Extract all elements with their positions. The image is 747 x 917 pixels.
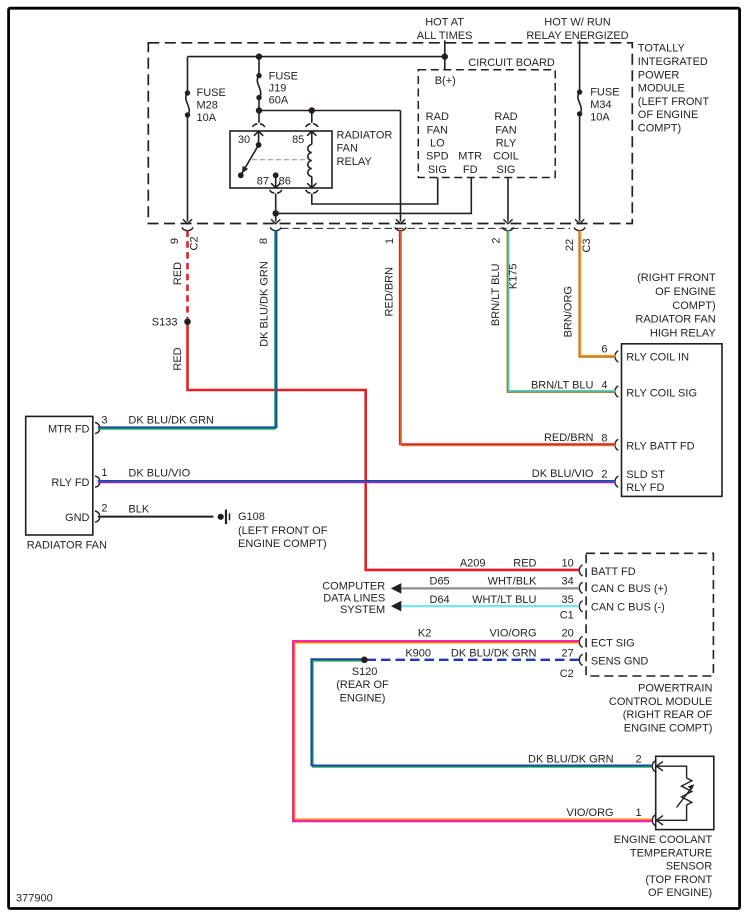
svg-text:RELAY ENERGIZED: RELAY ENERGIZED xyxy=(526,30,628,42)
svg-text:OF ENGINE: OF ENGINE xyxy=(655,286,716,298)
svg-text:DATA LINES: DATA LINES xyxy=(323,592,385,604)
svg-text:9: 9 xyxy=(169,238,181,244)
svg-text:2: 2 xyxy=(491,238,503,244)
svg-text:FD: FD xyxy=(463,164,478,176)
svg-text:ECT SIG: ECT SIG xyxy=(591,637,635,649)
svg-text:M34: M34 xyxy=(590,99,611,111)
svg-text:K900: K900 xyxy=(405,647,431,659)
svg-text:(REAR OF: (REAR OF xyxy=(336,679,389,691)
svg-text:RADIATOR FAN: RADIATOR FAN xyxy=(635,314,715,326)
svg-text:(LEFT FRONT OF: (LEFT FRONT OF xyxy=(238,525,328,537)
svg-text:LO: LO xyxy=(430,137,445,149)
svg-text:C1: C1 xyxy=(560,609,574,621)
svg-text:FUSE: FUSE xyxy=(269,71,298,83)
svg-text:ENGINE COMPT): ENGINE COMPT) xyxy=(624,723,713,735)
svg-text:C2: C2 xyxy=(560,668,574,680)
svg-text:(RIGHT REAR OF: (RIGHT REAR OF xyxy=(623,709,713,721)
svg-text:B(+): B(+) xyxy=(435,75,456,87)
svg-text:G108: G108 xyxy=(238,511,265,523)
svg-text:2: 2 xyxy=(601,468,607,480)
svg-text:D65: D65 xyxy=(430,575,450,587)
svg-text:8: 8 xyxy=(258,238,270,244)
svg-text:1: 1 xyxy=(635,807,641,819)
svg-text:10A: 10A xyxy=(590,112,610,124)
svg-text:86: 86 xyxy=(279,175,291,187)
svg-text:60A: 60A xyxy=(269,95,289,107)
svg-text:DK BLU/VIO: DK BLU/VIO xyxy=(532,468,594,480)
svg-text:RED/BRN: RED/BRN xyxy=(544,432,594,444)
svg-text:DK BLU/VIO: DK BLU/VIO xyxy=(128,468,190,480)
svg-text:CAN C BUS (+): CAN C BUS (+) xyxy=(591,583,668,595)
svg-text:RADIATOR: RADIATOR xyxy=(337,129,393,141)
svg-text:SIG: SIG xyxy=(428,164,447,176)
svg-text:4: 4 xyxy=(601,380,607,392)
svg-text:COMPUTER: COMPUTER xyxy=(322,581,385,593)
svg-text:K2: K2 xyxy=(418,628,431,640)
svg-text:RED: RED xyxy=(172,262,184,285)
svg-text:35: 35 xyxy=(562,594,574,606)
svg-text:POWERTRAIN: POWERTRAIN xyxy=(638,683,712,695)
svg-text:WHT/LT BLU: WHT/LT BLU xyxy=(472,594,536,606)
svg-text:FUSE: FUSE xyxy=(590,87,619,99)
svg-text:(LEFT FRONT: (LEFT FRONT xyxy=(638,96,710,108)
svg-text:ENGINE COMPT): ENGINE COMPT) xyxy=(238,538,327,550)
svg-text:SIG: SIG xyxy=(497,164,516,176)
svg-text:30: 30 xyxy=(238,134,250,146)
svg-text:(TOP FRONT: (TOP FRONT xyxy=(645,874,712,886)
svg-text:S133: S133 xyxy=(152,317,178,329)
svg-text:OF ENGINE): OF ENGINE) xyxy=(648,887,712,899)
svg-text:RAD: RAD xyxy=(426,111,449,123)
svg-text:CONTROL MODULE: CONTROL MODULE xyxy=(609,696,713,708)
svg-text:COIL: COIL xyxy=(493,151,519,163)
svg-text:ENGINE): ENGINE) xyxy=(340,692,386,704)
svg-text:377900: 377900 xyxy=(16,892,53,904)
svg-text:8: 8 xyxy=(601,433,607,445)
svg-text:SPD: SPD xyxy=(426,151,449,163)
svg-text:1: 1 xyxy=(384,238,396,244)
svg-text:RLY COIL IN: RLY COIL IN xyxy=(626,351,689,363)
svg-text:SENSOR: SENSOR xyxy=(666,861,713,873)
svg-text:22: 22 xyxy=(564,239,576,251)
svg-text:VIO/ORG: VIO/ORG xyxy=(567,807,614,819)
svg-text:COMPT): COMPT) xyxy=(672,300,715,312)
svg-text:RLY FD: RLY FD xyxy=(626,482,664,494)
svg-text:FAN: FAN xyxy=(337,143,358,155)
svg-text:ENGINE COOLANT: ENGINE COOLANT xyxy=(614,834,713,846)
svg-text:MODULE: MODULE xyxy=(638,83,685,95)
svg-text:DK BLU/DK GRN: DK BLU/DK GRN xyxy=(128,415,214,427)
svg-text:RLY COIL SIG: RLY COIL SIG xyxy=(626,387,697,399)
svg-text:FUSE: FUSE xyxy=(197,87,226,99)
svg-text:OF ENGINE: OF ENGINE xyxy=(638,109,699,121)
svg-text:87: 87 xyxy=(257,175,269,187)
svg-text:DK BLU/DK GRN: DK BLU/DK GRN xyxy=(528,754,614,766)
svg-text:CAN C BUS (-): CAN C BUS (-) xyxy=(591,602,665,614)
svg-text:BATT FD: BATT FD xyxy=(591,566,636,578)
svg-text:MTR FD: MTR FD xyxy=(48,423,90,435)
svg-text:BRN/LT BLU: BRN/LT BLU xyxy=(531,379,594,391)
svg-text:K175: K175 xyxy=(508,263,520,289)
svg-text:INTEGRATED: INTEGRATED xyxy=(638,56,708,68)
svg-text:34: 34 xyxy=(562,575,574,587)
svg-text:85: 85 xyxy=(292,134,304,146)
svg-text:POWER: POWER xyxy=(638,69,680,81)
svg-text:RADIATOR FAN: RADIATOR FAN xyxy=(27,539,107,551)
svg-text:COMPT): COMPT) xyxy=(638,123,681,135)
svg-text:ALL TIMES: ALL TIMES xyxy=(417,30,473,42)
svg-text:RED: RED xyxy=(172,347,184,370)
svg-text:2: 2 xyxy=(635,754,641,766)
svg-text:1: 1 xyxy=(101,467,107,479)
svg-text:2: 2 xyxy=(101,503,107,515)
svg-text:6: 6 xyxy=(601,344,607,356)
svg-text:MTR: MTR xyxy=(458,151,482,163)
svg-text:TOTALLY: TOTALLY xyxy=(638,43,686,55)
svg-text:RLY: RLY xyxy=(496,137,517,149)
svg-text:HOT W/ RUN: HOT W/ RUN xyxy=(544,17,610,29)
svg-text:S120: S120 xyxy=(352,666,378,678)
svg-text:BLK: BLK xyxy=(128,503,149,515)
svg-text:HIGH RELAY: HIGH RELAY xyxy=(650,328,716,340)
svg-text:FAN: FAN xyxy=(427,124,448,136)
svg-text:RAD: RAD xyxy=(494,111,517,123)
svg-text:SENS GND: SENS GND xyxy=(591,655,649,667)
svg-text:HOT AT: HOT AT xyxy=(425,17,464,29)
svg-text:DK BLU/DK GRN: DK BLU/DK GRN xyxy=(259,261,271,347)
svg-text:VIO/ORG: VIO/ORG xyxy=(489,628,536,640)
svg-text:DK BLU/DK GRN: DK BLU/DK GRN xyxy=(451,647,537,659)
svg-text:A209: A209 xyxy=(460,557,486,569)
svg-text:FAN: FAN xyxy=(495,124,516,136)
svg-text:RED: RED xyxy=(513,557,536,569)
svg-text:WHT/BLK: WHT/BLK xyxy=(488,575,538,587)
svg-text:3: 3 xyxy=(101,414,107,426)
svg-text:CIRCUIT BOARD: CIRCUIT BOARD xyxy=(468,57,555,69)
svg-text:GND: GND xyxy=(65,512,90,524)
svg-text:J19: J19 xyxy=(269,83,287,95)
svg-text:20: 20 xyxy=(562,628,574,640)
svg-text:10: 10 xyxy=(562,557,574,569)
svg-text:M28: M28 xyxy=(197,100,218,112)
svg-text:RELAY: RELAY xyxy=(337,156,373,168)
svg-text:C2: C2 xyxy=(189,236,201,250)
svg-text:TEMPERATURE: TEMPERATURE xyxy=(630,847,712,859)
svg-text:10A: 10A xyxy=(197,112,217,124)
svg-text:(RIGHT FRONT: (RIGHT FRONT xyxy=(637,272,716,284)
svg-text:RLY BATT FD: RLY BATT FD xyxy=(626,440,694,452)
svg-text:SYSTEM: SYSTEM xyxy=(340,604,385,616)
svg-text:RED/BRN: RED/BRN xyxy=(384,267,396,317)
svg-text:27: 27 xyxy=(562,647,574,659)
svg-text:C3: C3 xyxy=(581,238,593,252)
svg-text:D64: D64 xyxy=(430,594,450,606)
svg-text:SLD ST: SLD ST xyxy=(626,469,665,481)
svg-text:RLY FD: RLY FD xyxy=(51,477,89,489)
svg-text:BRN/ORG: BRN/ORG xyxy=(563,286,575,337)
svg-text:BRN/LT BLU: BRN/LT BLU xyxy=(490,263,502,326)
